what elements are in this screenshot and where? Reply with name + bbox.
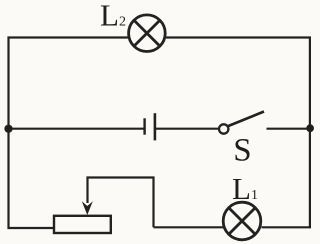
lamp L1 <box>223 202 261 240</box>
node left junction <box>4 125 12 133</box>
rheostat R (box) <box>54 216 111 233</box>
wire left vertical lower <box>9 129 55 228</box>
wire right vertical lower <box>262 128 310 227</box>
slider arrow wire <box>88 178 154 228</box>
wire bottom (rheostat branch to lamp L1) <box>154 226 224 228</box>
battery cell <box>145 113 155 140</box>
wire top-left segment <box>9 38 129 129</box>
slider arrowhead <box>82 201 93 215</box>
lamp L2 <box>129 15 166 52</box>
wire switch to right node <box>267 128 310 130</box>
svg-text:S: S <box>233 132 251 168</box>
switch S <box>219 112 264 134</box>
wire middle-left (to battery) <box>9 128 144 130</box>
node right junction <box>306 124 314 132</box>
wire top-right segment <box>166 38 310 129</box>
wire battery to switch <box>156 128 219 130</box>
